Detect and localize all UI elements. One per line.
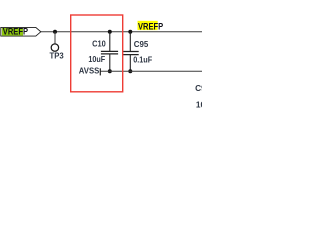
search highlight (green) on VREF xyxy=(2,28,23,36)
svg-text:10uF: 10uF xyxy=(196,99,202,109)
node: junction C95 top xyxy=(128,30,132,34)
node: junction TP3 tap xyxy=(53,30,57,34)
svg-text:C96: C96 xyxy=(195,83,202,93)
power flag VREFP (left) xyxy=(1,27,41,36)
svg-text:C10: C10 xyxy=(92,38,106,48)
wire: C10 bottom lead xyxy=(109,54,111,71)
svg-text:AVSS: AVSS xyxy=(79,66,100,76)
node: junction C10 top xyxy=(108,30,112,34)
capacitor C10 xyxy=(101,50,118,52)
wire: VREFP top rail xyxy=(41,31,202,33)
node: junction C10 bottom xyxy=(108,69,112,73)
svg-text:TP3: TP3 xyxy=(50,51,65,61)
svg-text:0.1uF: 0.1uF xyxy=(133,54,152,64)
test point TP3 xyxy=(51,44,58,51)
selection rectangle (red) xyxy=(71,15,123,92)
svg-text:C95: C95 xyxy=(134,39,149,49)
wire: C95 bottom lead xyxy=(129,55,131,72)
power symbol AVSS bar xyxy=(99,68,101,75)
wire: C10 top lead xyxy=(109,32,111,51)
search highlight (yellow) on VREF xyxy=(138,21,158,30)
svg-text:VREFP: VREFP xyxy=(138,21,163,31)
node: junction C95 bottom xyxy=(128,69,132,73)
svg-text:VREFP: VREFP xyxy=(3,27,28,37)
wire: TP3 stub xyxy=(54,32,56,44)
wire: AVSS bottom rail xyxy=(100,70,202,72)
svg-text:10uF: 10uF xyxy=(88,54,105,64)
wire: C95 top lead xyxy=(129,32,131,52)
capacitor C95 xyxy=(123,51,139,53)
